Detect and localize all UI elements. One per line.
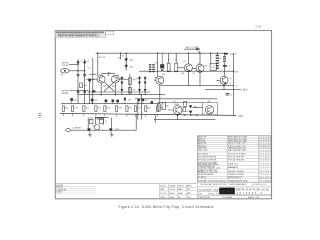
- transistor Q8 in can: [203, 103, 218, 115]
- capacitor C1: [223, 65, 227, 66]
- svg-text:2N29: 2N29: [107, 72, 111, 74]
- svg-text:5723415: 5723415: [259, 160, 270, 162]
- svg-text:WT: WT: [178, 197, 181, 199]
- svg-text:R1 4.7K: R1 4.7K: [99, 57, 106, 59]
- wire riser x196.5: [199, 53, 201, 64]
- svg-text:Q3: Q3: [183, 61, 187, 63]
- svg-text:CAP CER DISC 100V: CAP CER DISC 100V: [228, 149, 247, 152]
- svg-text:TECHNICAL DESCRIPTION: TECHNICAL DESCRIPTION: [200, 183, 228, 186]
- transistor Q3: [184, 64, 192, 72]
- resistor R2: [175, 63, 178, 72]
- wire riser x185: [187, 53, 189, 64]
- diode CR5: [77, 89, 80, 92]
- parts list table: [197, 136, 271, 182]
- wire one-shot vertical c: [103, 118, 105, 125]
- wire riser x120.5: [120, 53, 122, 59]
- wire FF top link: [101, 74, 115, 76]
- wire Q3 drop: [187, 72, 189, 86]
- svg-text:R5: R5: [118, 57, 120, 59]
- sheet border frame: [55, 31, 271, 199]
- svg-text:NONE: NONE: [178, 193, 183, 195]
- svg-text:R21: R21: [75, 107, 78, 109]
- svg-text:DRILLED + PLATED: DRILLED + PLATED: [228, 170, 245, 173]
- svg-text:ENG EL: ENG EL: [178, 185, 184, 187]
- node ticks below bottom rail: [63, 114, 158, 118]
- revision table divider: [160, 182, 198, 199]
- svg-text:FINISH: FINISH: [169, 193, 175, 195]
- title block mid rules: [197, 191, 271, 195]
- svg-text:SET TO ONE: SET TO ONE: [185, 47, 199, 49]
- svg-text:R18: R18: [235, 71, 238, 73]
- svg-text:PL 4613894: PL 4613894: [223, 197, 233, 199]
- junction dots: [77, 52, 234, 130]
- svg-text:-15 V: -15 V: [238, 115, 244, 118]
- title block: [55, 182, 271, 199]
- diode CR13: [120, 89, 123, 92]
- wire riser x157.7: [158, 53, 160, 103]
- page number margin mark: [38, 113, 41, 118]
- svg-text:Q6: Q6: [229, 78, 233, 80]
- wire Q3 base stub: [177, 67, 184, 69]
- svg-text:WRITE FLIP FLOP: WRITE FLIP FLOP: [228, 177, 243, 179]
- wire diode col x146.6: [144, 76, 146, 95]
- svg-text:IN: IN: [61, 74, 64, 76]
- wire input2 lead: [69, 70, 84, 72]
- wire riser x216.5: [216, 53, 218, 55]
- wire one-shot vertical d: [110, 118, 112, 131]
- wire res col x129.9: [129, 74, 131, 95]
- svg-text:1K: 1K: [175, 60, 178, 62]
- resistor R4 stack: [216, 55, 219, 69]
- resistor R10: [157, 104, 160, 111]
- wire lower group vertical x141.3: [140, 95, 142, 120]
- svg-text:R26: R26: [128, 107, 131, 109]
- svg-text:Figure 2-12. G200 Write Flip-: Figure 2-12. G200 Write Flip-Flop, Circu…: [119, 205, 214, 209]
- wire input3 lead: [69, 90, 88, 92]
- wire rail y85.7: [161, 85, 234, 87]
- table row lines: [197, 138, 271, 179]
- header revision box: [55, 31, 113, 38]
- resistor R13 one-shot: [100, 119, 104, 124]
- svg-text:APPD: APPD: [207, 188, 212, 191]
- svg-text:C2: C2: [87, 61, 90, 63]
- svg-text:PROJ ENG: PROJ ENG: [198, 189, 207, 191]
- wire mid rail y71.2: [139, 70, 234, 72]
- svg-text:CAP .01UF: CAP .01UF: [198, 149, 208, 152]
- diode CR10: [138, 82, 141, 85]
- svg-text:CHK RM: CHK RM: [169, 185, 176, 187]
- wire left stub y74.2: [89, 73, 96, 75]
- svg-text:CR1: CR1: [129, 60, 134, 62]
- wire left riser x84.6: [84, 59, 86, 103]
- svg-text:CASE TO-5: CASE TO-5: [228, 162, 238, 165]
- svg-text:1K: 1K: [168, 60, 171, 62]
- svg-text:5723351: 5723351: [259, 154, 270, 156]
- svg-text:R22: R22: [86, 107, 89, 109]
- svg-text:CR5: CR5: [128, 99, 131, 101]
- svg-text:TINNED COPPER: TINNED COPPER: [228, 174, 245, 176]
- svg-text:5723431: 5723431: [259, 163, 270, 165]
- wire rail end tick: [154, 115, 156, 123]
- diode CR15: [144, 89, 147, 92]
- capacitor C10 dark block: [160, 64, 164, 68]
- resistor R8: [128, 88, 131, 93]
- transistor Q6: [220, 76, 228, 84]
- wire lower rail y119.5: [154, 119, 216, 121]
- svg-text:C5: C5: [88, 68, 90, 70]
- resistor R7: [128, 78, 131, 84]
- svg-text:WIRE BUS AWG22: WIRE BUS AWG22: [198, 173, 214, 176]
- svg-text:CR16: CR16: [193, 106, 197, 108]
- wire R1 stub: [168, 53, 170, 63]
- svg-text:CAP 47PF: CAP 47PF: [198, 147, 208, 150]
- svg-text:5723420: 5723420: [259, 157, 270, 159]
- diode CR9: [138, 77, 141, 80]
- diode CR2: [125, 65, 128, 69]
- diode CR19 one-shot: [109, 128, 113, 132]
- svg-text:REF: REF: [187, 193, 190, 195]
- svg-text:C3: C3: [105, 121, 107, 123]
- drafting cells text: [160, 184, 192, 199]
- svg-text:R4: R4: [219, 58, 221, 60]
- svg-text:CR4: CR4: [94, 100, 97, 102]
- transistor Q9 one-shot: [94, 125, 99, 130]
- capacitor C7 riser a: [77, 75, 80, 76]
- wire bottom rail: [60, 113, 236, 115]
- wire one-shot right vertical: [124, 115, 136, 131]
- svg-text:SH 1: SH 1: [187, 197, 191, 199]
- transistor Q2: [111, 75, 119, 83]
- wire right vertical x233.5: [233, 53, 235, 115]
- wire diode col x141.2: [139, 76, 141, 95]
- svg-text:5-12-64: 5-12-64: [169, 189, 175, 191]
- svg-text:XTR SIL PNP SW: XTR SIL PNP SW: [228, 157, 244, 159]
- svg-text:4613890-100: 4613890-100: [252, 184, 266, 186]
- svg-text:-15 V: -15 V: [242, 89, 248, 92]
- svg-text:+15 V: +15 V: [230, 53, 237, 56]
- diode CR12: [144, 82, 147, 85]
- wire lower rail y98.8: [135, 98, 217, 100]
- diode CR3: [77, 60, 80, 63]
- svg-text:R28: R28: [147, 107, 150, 109]
- wire -15V rail y89.4: [205, 88, 241, 90]
- svg-text:R24: R24: [107, 107, 110, 109]
- wire riser x210: [210, 53, 212, 64]
- logo block: [219, 188, 235, 195]
- transistor Q4: [196, 64, 204, 72]
- svg-text:BRASS AG PL: BRASS AG PL: [228, 166, 238, 169]
- wire FF cross couple 2: [103, 82, 115, 91]
- terminal E1 input: [61, 69, 69, 73]
- svg-text:PC ASSY: PC ASSY: [198, 176, 207, 179]
- svg-text:C6: C6: [145, 100, 147, 102]
- svg-text:5720119: 5720119: [259, 167, 270, 169]
- node stubs blob row to rail: [72, 100, 152, 104]
- wire Q6 drop: [223, 84, 225, 89]
- wire left riser x78: [77, 59, 79, 103]
- svg-text:5723218: 5723218: [259, 150, 270, 152]
- svg-text:R6: R6: [155, 63, 157, 65]
- diode CR8: [120, 82, 123, 85]
- svg-text:4613893: 4613893: [259, 171, 270, 173]
- svg-text:ITEM PART OR IDENTIFYING NO: ITEM PART OR IDENTIFYING NO: [198, 179, 227, 182]
- diode CR1: [125, 58, 128, 62]
- svg-text:DIO IN3605: DIO IN3605: [198, 153, 208, 155]
- wire lower rail y102.5: [157, 102, 202, 104]
- wire Q8 box feed: [193, 107, 203, 109]
- transistor Q1: [97, 75, 105, 83]
- wire diode col x121.9: [121, 76, 123, 95]
- svg-text:GE/PAC: GE/PAC: [220, 189, 234, 193]
- svg-text:NOMENCLATURE / DESC: NOMENCLATURE / DESC: [228, 179, 249, 182]
- svg-text:R31: R31: [115, 129, 118, 131]
- wire R2 stub: [175, 53, 177, 63]
- svg-text:NONE: NONE: [169, 197, 174, 199]
- svg-text:2.2K: 2.2K: [211, 67, 216, 69]
- svg-text:D 4920: D 4920: [56, 192, 62, 194]
- diode CR18 one-shot: [87, 128, 91, 132]
- svg-text:R25: R25: [119, 107, 122, 109]
- svg-text:DC RESET: DC RESET: [72, 128, 82, 130]
- svg-text:GB: GB: [187, 189, 189, 191]
- diode CR14: [138, 89, 141, 92]
- svg-text:QTY REQD: QTY REQD: [259, 181, 271, 183]
- wire input1 lead: [69, 63, 78, 65]
- wire FF Q1 collector drop: [100, 83, 102, 95]
- svg-text:2 1 A: 2 1 A: [256, 25, 262, 28]
- svg-text:R12: R12: [90, 117, 93, 119]
- wire riser x92.8: [92, 58, 94, 104]
- svg-text:APPD: APPD: [187, 184, 192, 187]
- wire Q8 drop: [209, 114, 211, 115]
- svg-text:R10: R10: [165, 105, 168, 107]
- wire one-shot vertical a: [87, 118, 89, 131]
- pencil note above corner: [256, 25, 262, 28]
- wire one-shot top rail: [98, 116, 109, 118]
- diode CR7: [120, 77, 123, 80]
- table column dividers: [227, 136, 259, 182]
- wire diode branch riser x126.2: [125, 53, 127, 70]
- svg-text:CR2: CR2: [129, 67, 134, 69]
- wire left rail y91.6: [88, 91, 150, 93]
- svg-text:PULSE: PULSE: [62, 65, 69, 67]
- svg-text:TOL .XX: TOL .XX: [160, 193, 167, 195]
- resistor R5 stack: [223, 56, 226, 62]
- svg-text:CR9: CR9: [135, 78, 138, 80]
- svg-text:R23: R23: [98, 107, 101, 109]
- terminal E2 one-shot: [66, 129, 71, 132]
- svg-text:R29: R29: [160, 107, 163, 109]
- svg-text:D: D: [217, 193, 219, 195]
- title strip top rule: [55, 183, 197, 185]
- svg-text:DR JW: DR JW: [160, 185, 166, 187]
- wire FF base feed left: [87, 78, 98, 80]
- tech description band: [197, 186, 271, 188]
- svg-text:DATE: DATE: [160, 188, 164, 191]
- svg-text:220: 220: [192, 73, 195, 75]
- resistor R11: [183, 107, 186, 111]
- wire Q6 base stub: [217, 79, 221, 81]
- capacitor C8 riser b: [83, 75, 86, 76]
- svg-text:Q5: Q5: [154, 77, 157, 79]
- svg-text:Q2: Q2: [117, 74, 121, 76]
- svg-text:10K: 10K: [162, 74, 166, 76]
- svg-text:R15: R15: [84, 85, 87, 87]
- wire vertical x137.8: [137, 99, 139, 120]
- wire one-shot bottom line: [71, 129, 125, 131]
- wire rail y94.7: [78, 94, 165, 96]
- resistor R1: [167, 63, 170, 72]
- wire Q7 connect: [168, 109, 183, 111]
- resistor R12 one-shot: [89, 119, 93, 124]
- wire Q7 emitter drop: [177, 114, 179, 119]
- svg-text:R20: R20: [65, 107, 68, 109]
- wire one-shot vertical b: [95, 118, 97, 125]
- svg-text:4613894-0: 4613894-0: [237, 192, 263, 195]
- wire riser x224.5 to R stack: [224, 53, 226, 76]
- wire Q5 base stub: [154, 79, 156, 81]
- resistor R6 stack: [149, 64, 155, 72]
- figure caption: [119, 205, 214, 209]
- svg-text:FSCM: FSCM: [209, 193, 215, 195]
- svg-text:47: 47: [230, 83, 232, 85]
- svg-text:XTR 2N2222 NPN SIL: XTR 2N2222 NPN SIL: [198, 160, 217, 162]
- capacitor C2: [226, 94, 230, 95]
- svg-text:Q9: Q9: [92, 125, 94, 127]
- svg-text:1K: 1K: [187, 111, 190, 113]
- svg-text:NEXT HIGHER ASSY: NEXT HIGHER ASSY: [230, 183, 248, 186]
- svg-text:4613894: 4613894: [259, 177, 270, 179]
- svg-text:6.8K: 6.8K: [181, 73, 185, 75]
- svg-text:R8: R8: [133, 89, 135, 91]
- svg-text:C2: C2: [230, 95, 232, 97]
- wire FF Q2 collector drop: [114, 83, 116, 95]
- resistor R3 horizontal: [210, 64, 216, 70]
- svg-text:CAP MICA 500V 5%: CAP MICA 500V 5%: [228, 147, 246, 150]
- ground one-shot left: [88, 132, 92, 137]
- diode CR16: [189, 105, 192, 108]
- arrow SET TO ONE pointer: [185, 48, 200, 50]
- wire node A riser: [97, 53, 99, 76]
- capacitor C3 one-shot: [95, 117, 104, 119]
- ground one-shot right: [110, 132, 114, 137]
- svg-text:DIO SIL HI SPEED: DIO SIL HI SPEED: [228, 153, 247, 155]
- diode CR11: [144, 77, 147, 80]
- diode CR17: [189, 111, 192, 114]
- wire FF cross couple 1: [105, 82, 115, 91]
- wire C10 stub: [161, 53, 163, 64]
- svg-text:XTR SIL NPN SW: XTR SIL NPN SW: [228, 160, 244, 162]
- svg-text:C9: C9: [235, 86, 237, 88]
- wire +15V bus tail: [225, 52, 229, 54]
- svg-text:CR3: CR3: [73, 100, 76, 102]
- svg-text:5720301: 5720301: [259, 174, 270, 176]
- revision table left rules: [55, 186, 96, 193]
- svg-text:SIZE: SIZE: [198, 193, 203, 195]
- revision entries text: [56, 184, 66, 194]
- transistor Q5: [156, 76, 164, 84]
- resistor row R20-R29 between rails: [62, 106, 159, 112]
- wire FF base feed right: [119, 78, 128, 80]
- svg-text:XTR 2N2905 PNP SIL: XTR 2N2905 PNP SIL: [198, 157, 217, 159]
- svg-text:SCALE: SCALE: [160, 196, 165, 199]
- svg-text:C1: C1: [228, 66, 230, 68]
- svg-text:2N404: 2N404: [174, 104, 179, 106]
- wire +15V top bus: [96, 52, 225, 54]
- wire Q4 drop: [199, 72, 201, 85]
- svg-text:WRITE FLIP FLOP (G200: WRITE FLIP FLOP (G200: [236, 189, 270, 192]
- svg-text:SCALE NONE: SCALE NONE: [198, 196, 210, 199]
- svg-text:C1: C1: [80, 61, 83, 63]
- svg-text:R27: R27: [137, 107, 140, 109]
- resistor R14: [184, 102, 187, 107]
- svg-text:ISSUED: ISSUED: [213, 189, 220, 191]
- svg-text:SHEET 1 OF 1: SHEET 1 OF 1: [248, 197, 260, 199]
- resistor R9: [80, 83, 83, 88]
- wire rail y103.7: [61, 103, 160, 105]
- svg-text:MATL: MATL: [178, 188, 182, 191]
- svg-text:R16: R16: [204, 65, 207, 67]
- wire riser x89.6: [89, 79, 91, 104]
- svg-text:RESET: RESET: [62, 93, 69, 95]
- transistor Q7: [173, 106, 182, 115]
- diode CR4: [83, 60, 86, 63]
- svg-text:R2: R2: [122, 56, 124, 58]
- diode CR6: [83, 89, 86, 92]
- svg-text:R13: R13: [100, 117, 103, 119]
- blobs component row upper: [70, 79, 153, 103]
- svg-text:CR7: CR7: [118, 78, 121, 80]
- wire Q4 base stub: [192, 67, 196, 69]
